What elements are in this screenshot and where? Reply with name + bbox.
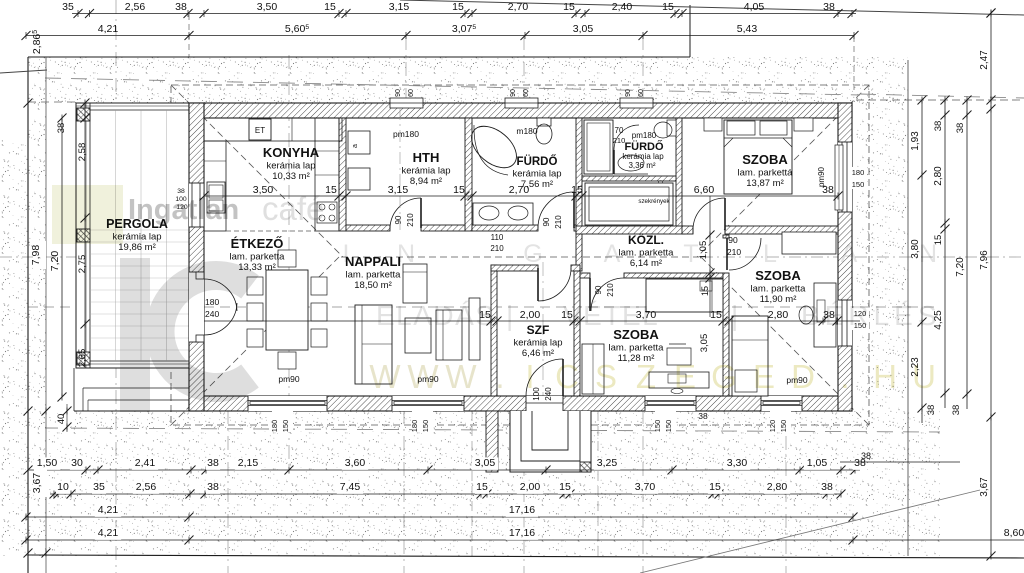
- svg-text:Z: Z: [636, 358, 656, 395]
- svg-text:W: W: [407, 358, 439, 395]
- door furdo: [538, 225, 574, 231]
- door etkezo-pergola double: [189, 272, 204, 342]
- furdo sink counter: [473, 203, 533, 225]
- dim col right 4: [990, 13, 992, 417]
- wall szoba-right top piece: [723, 235, 729, 238]
- szoba-tr nightstand left: [704, 118, 722, 131]
- svg-text:2,47: 2,47: [979, 50, 990, 70]
- plot boundary corner vertical: [689, 5, 691, 57]
- roof hip dashed top-right: [697, 85, 869, 257]
- szoba-tr radiator sill: [835, 145, 843, 210]
- svg-text:2,56: 2,56: [136, 481, 157, 493]
- svg-text:NAPPALI: NAPPALI: [345, 254, 401, 269]
- pergola column 3: [77, 352, 90, 365]
- svg-text:2,40: 2,40: [612, 1, 633, 13]
- vent hth top: [390, 98, 423, 108]
- svg-text:210: 210: [490, 244, 504, 253]
- svg-text:17,16: 17,16: [509, 527, 535, 539]
- svg-text:60: 60: [523, 89, 530, 97]
- entry step column: [580, 462, 591, 472]
- svg-text:210: 210: [606, 283, 615, 297]
- svg-text:60: 60: [408, 89, 415, 97]
- svg-text:N: N: [397, 240, 415, 268]
- svg-text:7,98: 7,98: [30, 245, 42, 266]
- svg-text:|: |: [506, 300, 513, 331]
- szoba-mid bed: [646, 279, 723, 312]
- svg-text:KONYHA: KONYHA: [263, 145, 320, 160]
- pergola left band: [89, 103, 91, 368]
- svg-text:D: D: [791, 358, 815, 395]
- vent furdo top: [505, 98, 538, 108]
- svg-text:pm180: pm180: [632, 131, 657, 140]
- svg-text:90: 90: [395, 89, 402, 97]
- svg-text:HTH: HTH: [413, 150, 440, 165]
- dim chain corridor vertical: [709, 196, 711, 317]
- vertical axis x406 wall: [405, 36, 407, 103]
- svg-text:38: 38: [175, 1, 187, 13]
- ground stipple right band: [856, 95, 908, 411]
- nappali coffee table: [405, 318, 431, 353]
- wall kozl bottom stub: [580, 273, 590, 278]
- ground stipple bottom band: [28, 411, 940, 556]
- svg-text:240: 240: [544, 387, 553, 401]
- svg-text:.: .: [840, 358, 849, 395]
- plot boundary bottom: [28, 555, 1024, 558]
- svg-text:S: S: [595, 358, 617, 395]
- szoba-tr nightstand right: [794, 118, 813, 131]
- furdo corner bathtub: [464, 118, 524, 176]
- svg-text:4,21: 4,21: [98, 23, 119, 35]
- svg-text:W: W: [369, 358, 401, 395]
- svg-text:2,80: 2,80: [767, 481, 788, 493]
- svg-text:2,15: 2,15: [238, 457, 259, 469]
- wall kozl bottom: [624, 273, 723, 278]
- svg-text:2,00: 2,00: [520, 309, 541, 321]
- wall szf top left: [491, 265, 538, 271]
- hth machine 1: [348, 131, 370, 154]
- wall konyha-hth: [339, 118, 346, 231]
- nappali sofa: [355, 305, 392, 384]
- svg-text:8,60: 8,60: [1004, 527, 1024, 539]
- svg-text:m180: m180: [516, 126, 538, 136]
- svg-text:kerámia lap: kerámia lap: [266, 161, 315, 172]
- dim chain rooms top: [204, 195, 838, 197]
- watermark logo glyph I: [120, 258, 150, 412]
- svg-text:C: C: [555, 358, 579, 395]
- svg-text:18,50 m²: 18,50 m²: [354, 280, 392, 291]
- svg-text:15: 15: [324, 1, 336, 13]
- nappali tv bench: [469, 298, 480, 360]
- svg-text:kerámia lap: kerámia lap: [513, 338, 562, 349]
- stipple right edge: [907, 60, 909, 556]
- svg-text:6,14 m²: 6,14 m²: [630, 258, 662, 269]
- svg-text:2,75: 2,75: [77, 255, 88, 274]
- svg-text:38: 38: [955, 123, 966, 134]
- wall szf-szoba: [574, 271, 580, 396]
- svg-text:2,56: 2,56: [125, 1, 146, 13]
- szoba-mid desk: [649, 372, 709, 388]
- svg-text:3,67: 3,67: [31, 473, 43, 494]
- svg-text:3,30: 3,30: [727, 457, 748, 469]
- vertical axis x228 bottom: [227, 410, 229, 573]
- svg-text:7,45: 7,45: [340, 481, 361, 493]
- plot boundary small diagonal top-left: [0, 70, 47, 73]
- wall furdo bottom left: [472, 225, 538, 231]
- vent furdo2 top: [620, 98, 653, 108]
- svg-text:15: 15: [709, 481, 721, 493]
- dim col left inner 7,20: [61, 118, 63, 397]
- entry steps: [510, 411, 591, 472]
- svg-text:ET: ET: [255, 126, 265, 135]
- szoba-right chair: [799, 306, 813, 324]
- dim col right 2: [944, 100, 946, 408]
- svg-text:ELADÁS: ELADÁS: [376, 300, 496, 331]
- eave dashed line in bottom band: [45, 428, 940, 432]
- svg-text:T: T: [683, 240, 698, 268]
- svg-text:7,20: 7,20: [955, 257, 966, 277]
- svg-text:KÖZL.: KÖZL.: [628, 232, 664, 247]
- dim right start line: [856, 99, 1024, 101]
- svg-text:3,05: 3,05: [475, 457, 496, 469]
- pergola bottom band: [76, 360, 189, 362]
- window szoba-tr right: [838, 142, 852, 212]
- svg-text:13,87 m²: 13,87 m²: [746, 178, 784, 189]
- svg-text:1,05: 1,05: [698, 241, 709, 260]
- fence line left: [45, 57, 47, 573]
- dim row bottom D: [26, 539, 1024, 541]
- svg-text:kerámia lap: kerámia lap: [622, 152, 664, 161]
- door kozl-szoba mid: [590, 273, 624, 278]
- svg-text:150: 150: [281, 420, 290, 433]
- pergola top band: [76, 109, 189, 111]
- konyha left counter: [204, 141, 226, 231]
- svg-text:3,36 m²: 3,36 m²: [628, 161, 655, 170]
- svg-text:A: A: [841, 240, 858, 268]
- svg-text:38: 38: [951, 405, 962, 416]
- pergola outline: [76, 103, 189, 368]
- wall furdo-furdo2: [576, 118, 582, 271]
- house bottom wall: [189, 396, 852, 411]
- svg-text:4,21: 4,21: [98, 527, 119, 539]
- ground stipple top band: [28, 57, 908, 103]
- szoba-right desk: [814, 283, 836, 347]
- svg-text:10: 10: [57, 481, 69, 493]
- svg-text:L: L: [763, 240, 777, 268]
- wall szoba-tr bottom right: [725, 226, 838, 234]
- svg-text:lam. parketta: lam. parketta: [609, 343, 665, 354]
- svg-text:3,60: 3,60: [345, 457, 366, 469]
- entry door szf bottom: [526, 396, 563, 411]
- svg-text:SZF: SZF: [527, 323, 550, 337]
- wall closet bottom: [576, 226, 685, 234]
- plot boundary left: [27, 57, 29, 573]
- right 38 line: [840, 461, 960, 463]
- pergola top align dashed: [28, 101, 76, 103]
- svg-text:180: 180: [205, 297, 219, 307]
- svg-text:38: 38: [56, 123, 67, 134]
- roof hip dashed bottom-left: [171, 257, 339, 425]
- svg-text:19,86 m²: 19,86 m²: [118, 242, 156, 253]
- wall hth bottom right: [421, 225, 465, 231]
- entry side wall stub: [486, 411, 498, 472]
- svg-text:BÉRLÉS: BÉRLÉS: [801, 300, 942, 331]
- wall szf top right: [571, 265, 580, 271]
- svg-text:110: 110: [491, 233, 504, 242]
- plot boundary top: [28, 56, 690, 58]
- door szf top: [538, 268, 571, 301]
- svg-text:38: 38: [861, 451, 871, 461]
- svg-text:3,67: 3,67: [979, 477, 990, 497]
- vertical axis x116: [115, 0, 117, 573]
- svg-text:3,15: 3,15: [388, 184, 409, 196]
- terrace window left wall: [189, 183, 204, 227]
- svg-text:E: E: [753, 358, 775, 395]
- svg-text:35: 35: [93, 481, 105, 493]
- window szoba-mid bottom: [645, 396, 696, 411]
- svg-text:15: 15: [700, 286, 710, 296]
- svg-text:2,70: 2,70: [508, 1, 529, 13]
- svg-text:szekrények: szekrények: [638, 198, 670, 205]
- svg-text:15: 15: [325, 184, 337, 196]
- svg-text:38: 38: [926, 405, 937, 416]
- dim col pergola: [84, 103, 86, 368]
- plot diagonal bottom-right: [640, 490, 980, 573]
- dim col right 3: [966, 100, 968, 409]
- svg-text:70: 70: [615, 126, 624, 135]
- svg-text:17,16: 17,16: [509, 504, 535, 516]
- svg-text:3,05: 3,05: [699, 334, 710, 353]
- svg-text:A: A: [604, 240, 621, 268]
- svg-text:15: 15: [710, 309, 722, 321]
- svg-text:40: 40: [56, 414, 67, 425]
- svg-text:3,70: 3,70: [635, 481, 656, 493]
- furdo2 sink: [618, 155, 644, 171]
- dim row top 2: [26, 35, 854, 37]
- svg-text:7,96: 7,96: [979, 250, 990, 270]
- furdo2 shower tub: [584, 120, 613, 174]
- svg-text:38: 38: [823, 1, 835, 13]
- svg-text:4,05: 4,05: [744, 1, 765, 13]
- nappali armchair 2: [436, 310, 462, 360]
- door szoba right: [729, 238, 761, 270]
- window szoba-right right: [838, 300, 852, 346]
- svg-text:38: 38: [207, 457, 219, 469]
- svg-text:3,25: 3,25: [597, 457, 618, 469]
- kitchen open boundary dashed: [226, 230, 315, 232]
- vertical axis x643: [642, 36, 644, 103]
- svg-text:U: U: [912, 358, 936, 395]
- svg-text:90: 90: [510, 89, 517, 97]
- house right wall: [838, 103, 852, 411]
- svg-text:.: .: [495, 358, 504, 395]
- svg-text:I: I: [525, 358, 534, 395]
- entry axis: [542, 262, 544, 466]
- wall hth bottom left: [346, 225, 390, 231]
- svg-text:90: 90: [594, 285, 603, 294]
- plot boundary top diagonal: [400, 0, 1024, 15]
- konyha counter top: [204, 118, 342, 141]
- svg-text:G: G: [711, 358, 737, 395]
- svg-text:2,80: 2,80: [933, 166, 944, 186]
- svg-text:lam. parketta: lam. parketta: [751, 284, 807, 295]
- svg-text:35: 35: [62, 1, 74, 13]
- svg-text:15: 15: [476, 481, 488, 493]
- szoba-mid wardrobe: [582, 344, 604, 394]
- watermark logo glyph C: [160, 275, 250, 387]
- closet szekrenyek: [585, 183, 673, 225]
- svg-text:38: 38: [821, 481, 833, 493]
- vertical axis x524: [523, 36, 525, 103]
- svg-text:H: H: [873, 358, 897, 395]
- eave dashed line in top band: [45, 78, 860, 95]
- hth axis line: [399, 108, 401, 232]
- svg-text:kerámia lap: kerámia lap: [401, 166, 450, 177]
- svg-text:210: 210: [406, 213, 415, 227]
- dim row bottom B: [50, 493, 841, 495]
- svg-text:15: 15: [453, 184, 465, 196]
- svg-text:3,50: 3,50: [257, 1, 278, 13]
- svg-text:pm180: pm180: [393, 129, 419, 139]
- dim chain rooms bottom: [204, 320, 860, 322]
- svg-text:1,93: 1,93: [910, 131, 921, 151]
- svg-text:2,70: 2,70: [509, 184, 530, 196]
- wall nappali-szf: [491, 265, 497, 396]
- roof overhang dashed outline: [171, 85, 869, 425]
- wall furdo bottom right: [574, 225, 576, 231]
- wall furdo2 bottom: [582, 176, 676, 181]
- svg-text:10,33 m²: 10,33 m²: [272, 171, 310, 182]
- svg-text:3,05: 3,05: [573, 23, 594, 35]
- svg-text:240: 240: [205, 309, 219, 319]
- vertical axis x786 bottom: [785, 410, 787, 573]
- wall hth-furdo: [465, 118, 472, 231]
- svg-text:150: 150: [421, 420, 430, 433]
- svg-text:38: 38: [698, 411, 708, 421]
- svg-text:N: N: [919, 240, 937, 268]
- section dashed line: [28, 306, 940, 308]
- svg-text:2,00: 2,00: [520, 481, 541, 493]
- wall szoba-tr bottom left: [682, 226, 693, 234]
- svg-text:|: |: [731, 300, 738, 331]
- svg-text:SZOBA: SZOBA: [742, 152, 788, 167]
- svg-text:lam. parketta: lam. parketta: [230, 252, 286, 263]
- svg-text:15: 15: [571, 184, 583, 196]
- watermark logo block yellow: [52, 185, 123, 244]
- svg-text:38: 38: [207, 481, 219, 493]
- svg-text:2,65: 2,65: [77, 349, 88, 368]
- dim row top 1: [72, 13, 856, 15]
- etkezo table: [266, 270, 308, 350]
- horizontal axis dash-dot: [0, 256, 190, 258]
- svg-text:pm90: pm90: [278, 374, 300, 384]
- svg-text:SZOBA: SZOBA: [755, 268, 801, 283]
- svg-text:60: 60: [638, 89, 645, 97]
- roof hip dashed top-left: [171, 85, 343, 257]
- svg-text:a: a: [352, 144, 359, 148]
- konyha right counter: [315, 118, 339, 231]
- svg-text:30: 30: [71, 457, 83, 469]
- svg-text:E: E: [674, 358, 696, 395]
- svg-text:180: 180: [852, 168, 865, 177]
- szoba-mid chair: [667, 348, 691, 365]
- furdo2 wc: [667, 120, 676, 136]
- svg-text:lam. parkettá: lam. parkettá: [738, 168, 794, 179]
- konyha sink: [207, 182, 225, 213]
- konyha ET box: [249, 119, 271, 140]
- wall szoba-mid right: [723, 273, 729, 396]
- pergola steps: [73, 368, 75, 411]
- svg-text:150: 150: [653, 420, 662, 433]
- svg-text:180: 180: [410, 420, 419, 433]
- svg-text:15: 15: [662, 1, 674, 13]
- dim row bottom C: [26, 516, 853, 518]
- house right wall axis dashed top: [853, 36, 855, 90]
- svg-text:VÉTEL: VÉTEL: [563, 300, 659, 331]
- svg-text:38: 38: [933, 121, 944, 132]
- svg-text:G: G: [523, 240, 542, 268]
- roof ridge dashed: [341, 256, 699, 258]
- svg-text:5,43: 5,43: [737, 23, 758, 35]
- door szoba top-right: [692, 226, 694, 234]
- svg-text:2,41: 2,41: [135, 457, 156, 469]
- window nappali bottom: [392, 396, 464, 411]
- svg-text:1,05: 1,05: [807, 457, 828, 469]
- svg-text:90: 90: [394, 215, 403, 224]
- svg-text:kerámia lap: kerámia lap: [512, 169, 561, 180]
- konyha stove: [317, 202, 337, 223]
- svg-text:café: café: [262, 190, 324, 227]
- dim row bottom A: [28, 469, 860, 471]
- szoba-right top cabinet: [782, 232, 836, 254]
- svg-text:90: 90: [542, 217, 551, 226]
- dim col right 1: [921, 100, 923, 423]
- svg-text:150: 150: [852, 180, 865, 189]
- svg-text:7,20: 7,20: [49, 251, 61, 272]
- svg-text:180: 180: [270, 420, 279, 433]
- house left wall: [189, 103, 204, 411]
- window szoba-right bottom: [761, 396, 802, 411]
- svg-text:15: 15: [559, 481, 571, 493]
- svg-text:150: 150: [664, 420, 673, 433]
- svg-text:lam. parketta: lam. parketta: [619, 248, 675, 259]
- svg-text:Ingatlan: Ingatlan: [128, 194, 239, 226]
- roof hip dashed bottom-right: [701, 257, 869, 425]
- vertical axis x404 bottom: [403, 410, 405, 573]
- svg-text:W: W: [445, 358, 477, 395]
- house left wall axis dashed top: [188, 14, 190, 57]
- window etkezo bottom: [248, 396, 327, 411]
- svg-text:15: 15: [452, 1, 464, 13]
- door hth: [390, 225, 421, 231]
- svg-text:8,94 m²: 8,94 m²: [410, 176, 442, 187]
- svg-text:90: 90: [728, 235, 738, 245]
- nappali armchair: [403, 264, 427, 303]
- wall furdo2-szoba: [676, 118, 682, 232]
- svg-text:ÉTKEZŐ: ÉTKEZŐ: [231, 236, 284, 251]
- svg-text:11,90 m²: 11,90 m²: [760, 294, 797, 305]
- svg-text:210: 210: [554, 215, 563, 229]
- pergola column 1: [77, 108, 90, 121]
- svg-text:2,80: 2,80: [768, 309, 789, 321]
- vertical axis x289: [288, 55, 290, 470]
- svg-text:6,60: 6,60: [694, 184, 715, 196]
- svg-text:210: 210: [613, 136, 626, 145]
- svg-text:FÜRDŐ: FÜRDŐ: [517, 155, 558, 168]
- svg-text:3,15: 3,15: [389, 1, 410, 13]
- furdo wc: [537, 118, 551, 126]
- svg-text:lam. parketta: lam. parketta: [346, 270, 402, 281]
- svg-text:150: 150: [779, 420, 788, 433]
